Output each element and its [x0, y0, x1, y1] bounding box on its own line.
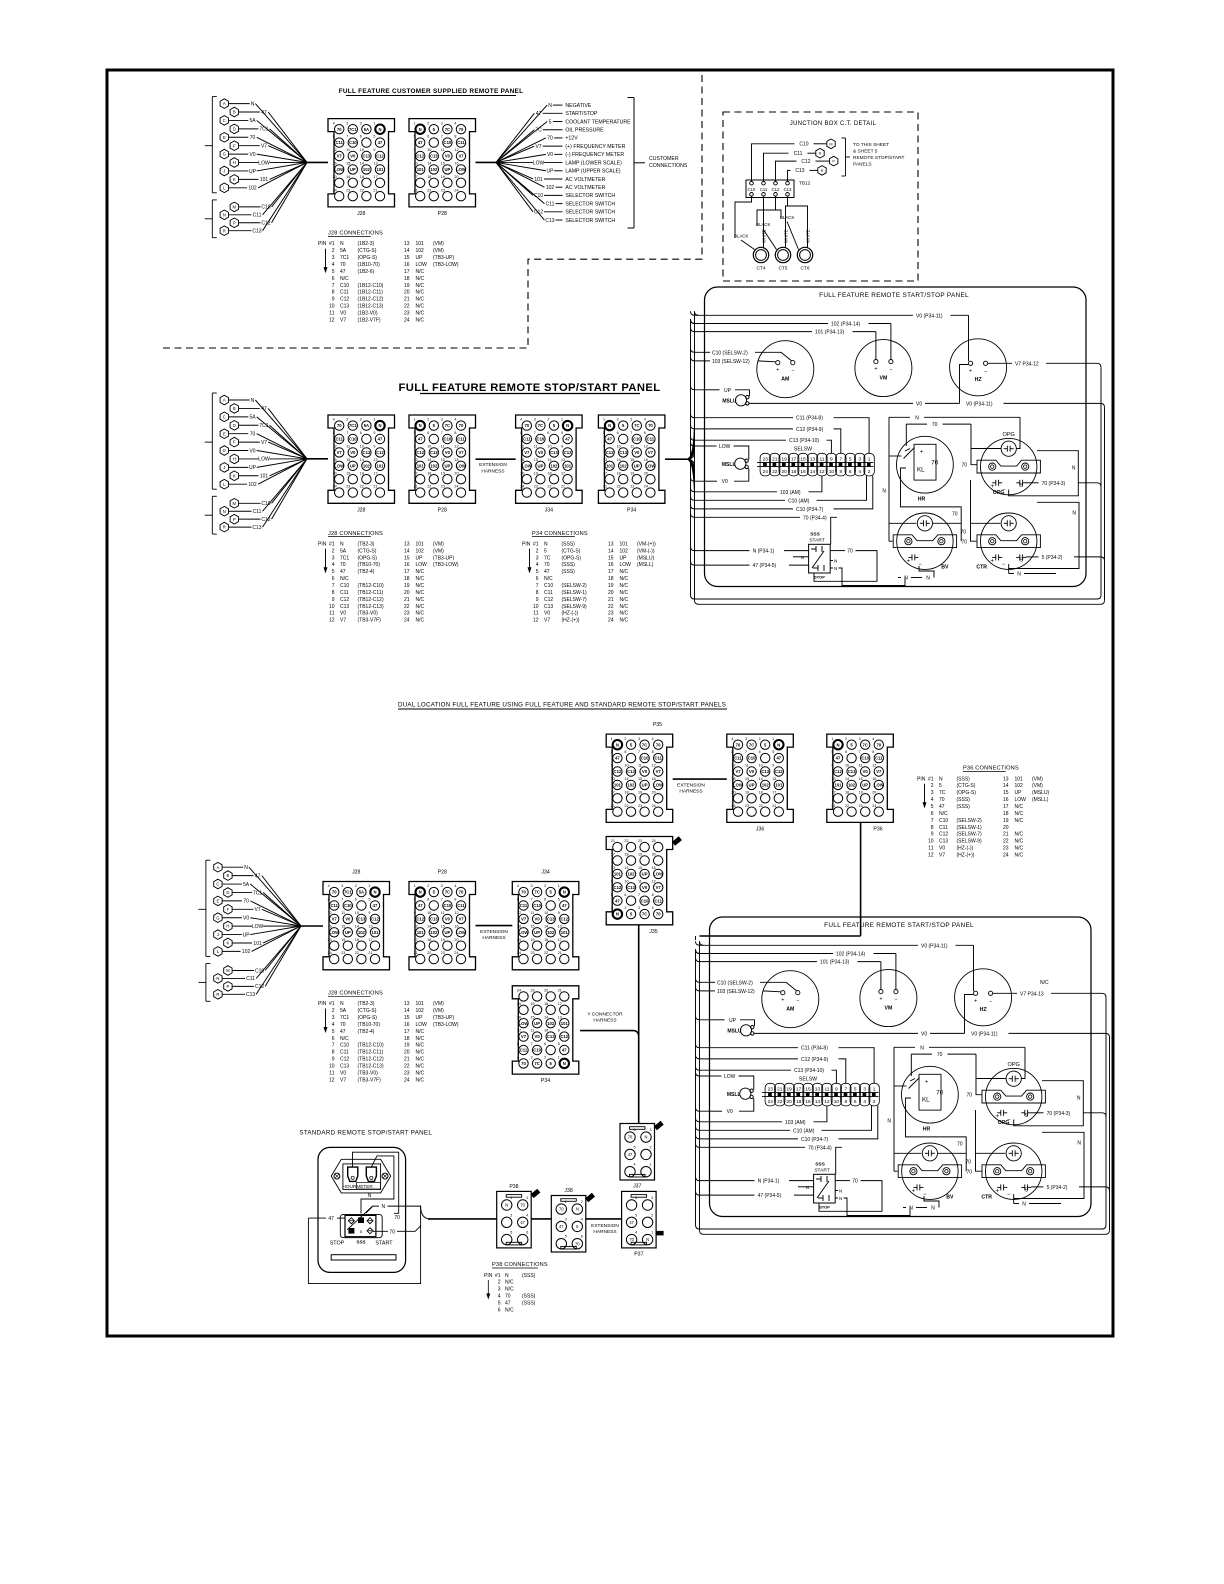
svg-text:1: 1	[772, 737, 774, 741]
svg-text:6: 6	[536, 576, 539, 582]
svg-text:(TB2-3): (TB2-3)	[358, 541, 375, 547]
svg-text:TO THIS SHEET: TO THIS SHEET	[853, 142, 889, 148]
svg-text:18: 18	[759, 790, 763, 794]
svg-text:(VM): (VM)	[1032, 783, 1043, 789]
svg-text:9: 9	[332, 1057, 335, 1063]
svg-text:V0: V0	[340, 611, 346, 617]
svg-text:N/C: N/C	[416, 611, 425, 617]
svg-text:47: 47	[562, 903, 567, 908]
wire CT5 black lead	[757, 196, 776, 226]
svg-text:70: 70	[931, 460, 938, 467]
svg-text:(+) FREQUENCY METER: (+) FREQUENCY METER	[565, 144, 625, 150]
wire N bottom CTR	[1013, 1199, 1015, 1204]
svg-text:6: 6	[931, 811, 934, 817]
svg-text:18: 18	[404, 576, 410, 582]
svg-text:N: N	[505, 1203, 508, 1208]
panel border top	[705, 287, 1087, 587]
svg-text:10: 10	[617, 445, 621, 449]
svg-text:C13: C13	[761, 769, 769, 774]
frequency meter HZ	[950, 339, 1007, 396]
svg-text:23: 23	[346, 485, 350, 489]
svg-text:4: 4	[863, 1099, 866, 1105]
svg-text:F: F	[233, 143, 236, 148]
svg-text:4: 4	[454, 418, 456, 422]
svg-text:7C: 7C	[445, 127, 450, 132]
svg-text:V0: V0	[340, 1070, 346, 1076]
svg-text:LOW: LOW	[653, 872, 663, 877]
svg-text:H: H	[226, 924, 229, 929]
svg-text:15: 15	[800, 456, 806, 462]
svg-text:16: 16	[800, 469, 806, 475]
wire CT4 black lead	[735, 196, 752, 238]
svg-text:CTR: CTR	[981, 1195, 992, 1201]
svg-text:102: 102	[358, 930, 366, 935]
svg-text:(VM): (VM)	[433, 1008, 444, 1014]
svg-text:3: 3	[565, 1217, 567, 1221]
svg-text:P28: P28	[438, 507, 447, 513]
wire CT4 white lead	[763, 196, 765, 247]
svg-text:14: 14	[608, 548, 614, 554]
svg-text:70: 70	[559, 1207, 564, 1212]
svg-text:102: 102	[248, 186, 257, 192]
svg-text:V0: V0	[544, 611, 550, 617]
svg-text:(VM-(-)): (VM-(-))	[637, 548, 655, 554]
svg-text:N/C: N/C	[416, 569, 425, 575]
svg-text:N: N	[608, 423, 611, 428]
svg-text:C11: C11	[544, 590, 553, 596]
svg-text:5A: 5A	[243, 882, 250, 888]
svg-text:22: 22	[617, 485, 621, 489]
wire 5 (P34-2)	[1026, 556, 1039, 558]
svg-text:UP: UP	[749, 783, 755, 788]
svg-text:(SSS): (SSS)	[522, 1301, 536, 1307]
svg-text:9: 9	[373, 148, 375, 152]
wire 70 from KL coil	[901, 476, 962, 542]
svg-text:3: 3	[441, 121, 443, 125]
connector P38	[497, 1184, 540, 1248]
svg-text:4: 4	[581, 1217, 583, 1221]
svg-text:20: 20	[731, 790, 735, 794]
svg-text:N/C: N/C	[939, 811, 948, 817]
svg-text:D: D	[233, 126, 236, 131]
svg-text:V7: V7	[458, 917, 464, 922]
svg-text:P: P	[233, 220, 236, 225]
svg-text:17: 17	[404, 269, 410, 275]
svg-text:MSLU: MSLU	[727, 1029, 742, 1035]
svg-text:C10: C10	[340, 283, 349, 289]
svg-text:9: 9	[414, 148, 416, 152]
svg-text:5: 5	[561, 431, 563, 435]
svg-text:N: N	[544, 541, 548, 547]
svg-text:& SHEET 5: & SHEET 5	[853, 149, 878, 155]
svg-text:C13: C13	[627, 885, 635, 890]
svg-text:6: 6	[617, 431, 619, 435]
svg-text:18: 18	[845, 790, 849, 794]
svg-text:5A: 5A	[359, 890, 364, 895]
voltmeter VM	[855, 340, 912, 397]
svg-text:6: 6	[547, 431, 549, 435]
svg-text:102: 102	[620, 463, 628, 468]
svg-text:3: 3	[534, 418, 536, 422]
svg-text:N: N	[576, 1207, 579, 1212]
svg-text:N: N	[548, 103, 552, 109]
svg-text:21: 21	[404, 297, 410, 303]
svg-text:12: 12	[652, 764, 656, 768]
wire C11 (P34-8)	[706, 417, 793, 419]
terminal N	[816, 148, 824, 158]
svg-text:C10 (SELSW-2): C10 (SELSW-2)	[717, 980, 753, 986]
svg-text:UP: UP	[444, 463, 450, 468]
svg-text:C12: C12	[416, 154, 424, 159]
svg-text:2: 2	[526, 1196, 528, 1200]
svg-text:21: 21	[404, 597, 410, 603]
svg-text:24: 24	[454, 485, 458, 489]
svg-text:C13: C13	[252, 228, 261, 234]
svg-text:P35: P35	[653, 722, 662, 728]
relay CTR	[981, 1143, 1045, 1201]
svg-text:STOP: STOP	[330, 1241, 345, 1247]
svg-text:18: 18	[617, 471, 621, 475]
svg-text:7: 7	[441, 431, 443, 435]
svg-text:22: 22	[608, 604, 614, 610]
svg-text:LOW: LOW	[653, 783, 663, 788]
svg-text:102: 102	[242, 949, 251, 955]
svg-text:N: N	[931, 1206, 935, 1212]
svg-text:103 (AM): 103 (AM)	[785, 1120, 806, 1126]
svg-text:13: 13	[815, 1086, 821, 1092]
svg-text:V0: V0	[642, 885, 648, 890]
svg-text:C11: C11	[253, 213, 262, 219]
wire N over KL	[894, 1046, 915, 1048]
svg-text:12: 12	[819, 469, 825, 475]
wire V0 long from MSLU	[749, 402, 913, 404]
svg-text:47 (P34-5): 47 (P34-5)	[753, 563, 777, 569]
svg-text:101: 101	[416, 241, 425, 247]
svg-text:18: 18	[427, 175, 431, 179]
svg-text:UP: UP	[350, 167, 356, 172]
svg-text:10: 10	[427, 911, 431, 915]
svg-text:HR: HR	[918, 497, 926, 503]
svg-text:23: 23	[441, 188, 445, 192]
svg-text:13: 13	[831, 777, 835, 781]
wire 70 (P34-3)	[1031, 1112, 1044, 1114]
svg-text:16: 16	[333, 458, 337, 462]
svg-text:11: 11	[533, 611, 538, 617]
svg-text:22: 22	[355, 951, 359, 955]
svg-text:J38: J38	[564, 1188, 572, 1194]
svg-text:UP: UP	[249, 169, 257, 175]
svg-text:HZ: HZ	[980, 1007, 988, 1013]
svg-text:(1B2-V0): (1B2-V0)	[358, 311, 378, 317]
svg-text:18: 18	[1003, 811, 1009, 817]
svg-text:V0: V0	[722, 479, 728, 485]
svg-text:13: 13	[404, 541, 410, 547]
svg-text:5: 5	[611, 750, 613, 754]
standard remote stop/start panel	[299, 1130, 496, 1284]
svg-text:C12: C12	[614, 769, 622, 774]
svg-text:12: 12	[328, 911, 332, 915]
svg-text:102: 102	[620, 548, 629, 554]
svg-text:(VM): (VM)	[433, 541, 444, 547]
panel border bottom	[710, 917, 1092, 1217]
relay KL (HR)	[897, 436, 954, 493]
svg-text:13: 13	[414, 162, 418, 166]
svg-text:V7: V7	[332, 917, 338, 922]
svg-text:15: 15	[534, 458, 538, 462]
wire fan to J28	[307, 161, 328, 163]
svg-text:J28 CONNECTIONS: J28 CONNECTIONS	[328, 991, 383, 997]
svg-text:12: 12	[517, 1029, 521, 1033]
svg-text:47: 47	[607, 437, 612, 442]
svg-text:C12: C12	[416, 450, 424, 455]
svg-text:N: N	[563, 1061, 566, 1066]
svg-text:AM: AM	[786, 1007, 794, 1013]
svg-text:101: 101	[417, 167, 425, 172]
wire N bottom BV	[898, 577, 901, 579]
svg-text:5: 5	[635, 1213, 637, 1217]
svg-text:K: K	[233, 473, 236, 478]
svg-text:101: 101	[416, 1001, 425, 1007]
svg-text:101: 101	[260, 177, 269, 183]
svg-text:C13: C13	[627, 769, 635, 774]
svg-text:N: N	[340, 241, 344, 247]
svg-text:23: 23	[768, 1086, 774, 1092]
svg-text:10: 10	[427, 445, 431, 449]
svg-text:NEGATIVE: NEGATIVE	[565, 103, 591, 109]
svg-text:9: 9	[373, 445, 375, 449]
svg-text:70: 70	[937, 1052, 943, 1058]
svg-text:15: 15	[638, 866, 642, 870]
svg-text:47: 47	[378, 437, 383, 442]
svg-text:9: 9	[611, 764, 613, 768]
svg-text:N: N	[801, 555, 804, 560]
svg-text:1: 1	[651, 1231, 653, 1235]
svg-text:6: 6	[624, 750, 626, 754]
svg-text:70: 70	[960, 529, 966, 535]
svg-text:N: N	[887, 1119, 891, 1125]
svg-text:23: 23	[404, 611, 410, 617]
svg-text:8: 8	[652, 893, 654, 897]
svg-text:102: 102	[628, 783, 636, 788]
svg-text:1: 1	[414, 418, 416, 422]
svg-text:N/C: N/C	[416, 1070, 425, 1076]
svg-text:LOW: LOW	[416, 562, 428, 568]
wire CT6 black lead	[776, 210, 782, 218]
svg-text:MSLU: MSLU	[722, 399, 737, 405]
svg-text:5: 5	[332, 569, 335, 575]
svg-text:11: 11	[346, 445, 350, 449]
svg-text:24: 24	[644, 485, 648, 489]
svg-text:C10: C10	[748, 187, 756, 192]
svg-text:15: 15	[441, 162, 445, 166]
svg-text:70: 70	[337, 127, 342, 132]
svg-text:15: 15	[404, 255, 410, 261]
svg-text:7: 7	[536, 583, 539, 589]
svg-text:7C: 7C	[445, 423, 450, 428]
wire 70 from SSS	[830, 550, 845, 552]
svg-text:10: 10	[845, 764, 849, 768]
svg-text:N: N	[616, 742, 619, 747]
svg-text:47: 47	[340, 269, 346, 275]
svg-text:4: 4	[328, 884, 330, 888]
svg-text:12: 12	[872, 764, 876, 768]
svg-text:V0: V0	[445, 917, 451, 922]
svg-text:SELSW: SELSW	[799, 1077, 817, 1083]
svg-text:16: 16	[517, 1015, 521, 1019]
svg-text:C10 (AM): C10 (AM)	[793, 1128, 815, 1134]
svg-text:8: 8	[454, 898, 456, 902]
svg-text:19: 19	[441, 938, 445, 942]
svg-text:UP: UP	[416, 255, 424, 261]
wire 70 vertical to CTR	[971, 480, 977, 541]
svg-text:(SELSW-2): (SELSW-2)	[562, 583, 588, 589]
svg-text:D: D	[226, 890, 229, 895]
svg-text:47: 47	[418, 437, 423, 442]
svg-text:23: 23	[531, 951, 535, 955]
svg-text:+12V: +12V	[565, 136, 578, 142]
wire P28 to customer fan	[476, 161, 497, 163]
svg-text:47: 47	[261, 406, 267, 412]
svg-text:C11: C11	[794, 151, 803, 157]
svg-text:70: 70	[961, 463, 967, 469]
wire 103 (SELSW-12)	[711, 990, 715, 992]
svg-text:15: 15	[341, 924, 345, 928]
svg-text:3: 3	[346, 121, 348, 125]
wire C12 (P34-9)	[711, 1058, 798, 1060]
svg-text:WHITE: WHITE	[806, 229, 811, 243]
hourmeter screws	[334, 1173, 340, 1179]
svg-text:10: 10	[329, 604, 335, 610]
svg-text:C12: C12	[340, 1057, 349, 1063]
svg-text:23: 23	[630, 485, 634, 489]
terminal R	[818, 166, 826, 176]
svg-text:7C1: 7C1	[340, 1015, 349, 1021]
svg-text:24: 24	[328, 951, 332, 955]
svg-text:J36: J36	[756, 826, 764, 832]
svg-text:J34: J34	[545, 507, 553, 513]
svg-text:16: 16	[404, 562, 410, 568]
svg-text:N: N	[920, 1045, 924, 1051]
svg-text:N: N	[909, 1206, 913, 1212]
svg-text:47: 47	[340, 569, 346, 575]
svg-text:101: 101	[606, 463, 614, 468]
svg-text:P38: P38	[509, 1184, 518, 1190]
svg-text:EXTENSION: EXTENSION	[677, 783, 705, 789]
svg-text:1: 1	[561, 418, 563, 422]
wire 70 vertical to CTR	[976, 1110, 982, 1171]
connector P36	[827, 734, 894, 832]
svg-text:SELSW: SELSW	[794, 447, 812, 453]
svg-text:14: 14	[544, 924, 548, 928]
svg-text:N/C: N/C	[416, 590, 425, 596]
svg-text:V0: V0	[921, 1031, 927, 1037]
svg-text:7: 7	[931, 818, 934, 824]
wire LOW to MSLL	[706, 445, 717, 447]
svg-text:CUSTOMER: CUSTOMER	[649, 156, 679, 162]
svg-text:C13: C13	[340, 604, 349, 610]
svg-text:(1B12-C13): (1B12-C13)	[358, 304, 384, 310]
svg-text:UP: UP	[249, 465, 257, 471]
svg-text:C10: C10	[544, 583, 553, 589]
svg-text:PANELS: PANELS	[853, 162, 872, 168]
svg-text:(OPG-S): (OPG-S)	[957, 790, 977, 796]
svg-text:4: 4	[872, 737, 874, 741]
svg-text:8: 8	[332, 290, 335, 296]
svg-text:8: 8	[332, 1050, 335, 1056]
svg-text:OPG: OPG	[993, 490, 1005, 496]
relay OPG	[982, 1062, 1045, 1126]
svg-text:C12: C12	[340, 297, 349, 303]
svg-text:R: R	[223, 228, 226, 233]
wire extension harness P28-J34 (bottom)	[476, 925, 513, 927]
svg-text:10: 10	[624, 879, 628, 883]
svg-text:SELECTOR SWITCH: SELECTOR SWITCH	[565, 193, 615, 199]
svg-text:19: 19	[441, 471, 445, 475]
svg-text:N: N	[340, 541, 344, 547]
svg-text:N/C: N/C	[416, 304, 425, 310]
svg-text:N: N	[251, 101, 255, 107]
svg-text:16: 16	[652, 866, 656, 870]
svg-text:(1B2-V7F): (1B2-V7F)	[358, 317, 381, 323]
svg-text:3: 3	[863, 1086, 866, 1092]
svg-text:N: N	[819, 152, 822, 156]
svg-text:15: 15	[859, 777, 863, 781]
svg-text:5: 5	[498, 1301, 501, 1307]
svg-text:16: 16	[520, 458, 524, 462]
connector P28 (bottom)	[409, 870, 476, 970]
svg-text:(MSLL): (MSLL)	[637, 562, 654, 568]
svg-text:11: 11	[745, 764, 749, 768]
svg-text:11: 11	[441, 445, 445, 449]
svg-text:9: 9	[558, 1029, 560, 1033]
svg-text:15: 15	[805, 1086, 811, 1092]
svg-text:16: 16	[608, 562, 614, 568]
svg-text:70: 70	[250, 135, 256, 141]
svg-text:N: N	[378, 423, 381, 428]
svg-text:N: N	[834, 559, 837, 564]
svg-text:20: 20	[517, 938, 521, 942]
svg-text:18: 18	[360, 175, 364, 179]
wire 70 over KL	[906, 423, 927, 425]
svg-text:18: 18	[360, 471, 364, 475]
svg-text:N/C: N/C	[416, 1043, 425, 1049]
svg-text:7C: 7C	[535, 128, 542, 134]
svg-text:UP: UP	[444, 930, 450, 935]
svg-text:(VM): (VM)	[433, 1001, 444, 1007]
svg-text:47: 47	[559, 1224, 564, 1229]
svg-text:11: 11	[329, 311, 334, 317]
svg-text:(1B12-C11): (1B12-C11)	[358, 290, 384, 296]
svg-text:LOW: LOW	[646, 463, 656, 468]
svg-text:V0: V0	[445, 154, 451, 159]
wire N left vertical	[893, 1047, 895, 1171]
wire hourmeter right to N	[361, 1156, 394, 1214]
svg-text:C13: C13	[363, 450, 371, 455]
svg-text:11: 11	[329, 611, 334, 617]
svg-text:7C1: 7C1	[259, 127, 268, 133]
svg-text:N: N	[839, 1189, 842, 1194]
wire 102 (P34-14)	[711, 953, 833, 955]
svg-text:F: F	[233, 440, 236, 445]
svg-text:3: 3	[332, 1015, 335, 1021]
svg-text:22: 22	[544, 989, 548, 993]
svg-text:18: 18	[544, 938, 548, 942]
svg-text:V7: V7	[939, 853, 945, 859]
svg-text:C: C	[223, 118, 226, 123]
terminal block TB12	[746, 180, 794, 198]
svg-text:70 (P34-3): 70 (P34-3)	[1047, 1111, 1071, 1117]
wire 70 from KL coil	[906, 1106, 967, 1172]
